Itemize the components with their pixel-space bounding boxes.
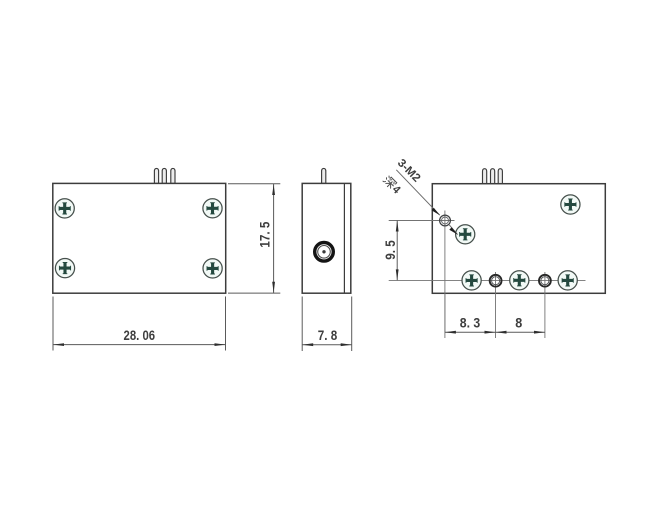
leader line to tapped hole xyxy=(396,170,440,215)
centerline vertical bottom hole 2 xyxy=(544,272,546,338)
dimension 17.5 extension line bottom xyxy=(228,292,280,294)
leader second segment to screw xyxy=(449,225,457,235)
SMA connector inner circle xyxy=(318,246,331,259)
pin P3 (front view) xyxy=(171,168,175,183)
pin P2 (front view) xyxy=(162,168,166,183)
screw back bottom 3 xyxy=(558,271,577,290)
centerline horizontal through top-left hole xyxy=(389,220,455,222)
dimension 17.5 extension line top xyxy=(228,183,280,185)
screw back bottom 2 xyxy=(510,271,529,290)
svg-text:7. 8: 7. 8 xyxy=(318,327,338,343)
svg-text:28. 06: 28. 06 xyxy=(124,327,156,343)
dimension 9.5 arrow top xyxy=(396,221,399,232)
tapped hole bottom 2 xyxy=(539,275,551,287)
screw front bottom-right xyxy=(203,259,222,278)
svg-text:8: 8 xyxy=(515,315,522,331)
dimension 17.5 arrow top xyxy=(272,184,275,195)
pin P1 (front view) xyxy=(154,168,158,183)
extension below top-left hole to dim xyxy=(444,293,446,338)
dimension 8.3 arrow right xyxy=(485,331,496,334)
back view body outline xyxy=(432,184,605,294)
side view inner edge line xyxy=(343,184,345,293)
tapped hole top-left xyxy=(440,215,451,226)
hand-drawn 深 glyph xyxy=(382,175,396,189)
dimension 17.5 line xyxy=(273,184,275,293)
screw back bottom 1 xyxy=(462,271,481,290)
pin P3 (back view) xyxy=(498,169,502,184)
dimension 8.3/8 line xyxy=(445,331,545,333)
leader arrow at hole xyxy=(432,208,440,215)
svg-text:4: 4 xyxy=(390,184,403,197)
dimension 8.3 arrow left xyxy=(445,331,456,334)
leader text 深4 (depth 4) xyxy=(381,175,403,197)
dimension 28.06 extension line left xyxy=(52,297,54,351)
screw front top-right xyxy=(203,199,222,218)
front view body outline xyxy=(53,183,226,293)
dimension 28.06 line xyxy=(53,344,226,346)
svg-text:8. 3: 8. 3 xyxy=(460,315,481,331)
dimension 7.8 extension line right xyxy=(351,297,353,352)
dimension 7.8 line xyxy=(302,344,352,346)
pin (side view) xyxy=(322,168,326,183)
svg-text:9. 5: 9. 5 xyxy=(382,240,398,260)
screw front top-left xyxy=(55,199,74,218)
pin P1 (back view) xyxy=(483,169,487,184)
centerline horizontal bottom hole row xyxy=(389,279,586,281)
dimension 28.06 extension line right xyxy=(225,297,227,351)
svg-text:3-M2: 3-M2 xyxy=(395,157,423,185)
dimension 7.8 arrow right xyxy=(341,343,352,346)
leader arrow at screw xyxy=(449,227,457,234)
screw back top-right xyxy=(561,195,580,214)
tapped hole bottom 1 xyxy=(490,275,502,287)
svg-text:17. 5: 17. 5 xyxy=(257,221,273,247)
dimension 8 arrow right xyxy=(534,331,545,334)
screw back upper-left xyxy=(456,225,475,244)
SMA connector outer ring xyxy=(315,243,334,262)
dimension 28.06 arrow left xyxy=(53,343,64,346)
centerline vertical bottom hole 1 xyxy=(495,272,497,338)
dimension 28.06 arrow right xyxy=(215,343,226,346)
dimension 7.8 extension line left xyxy=(301,297,303,352)
dimension 9.5 line xyxy=(396,221,398,281)
pin P2 (back view) xyxy=(491,169,495,184)
side view body outline xyxy=(302,183,351,293)
dimension 8 arrow left xyxy=(496,331,507,334)
SMA connector center pin xyxy=(322,250,325,253)
dimension 7.8 arrow left xyxy=(302,343,313,346)
screw front bottom-left xyxy=(55,259,74,278)
centerline vertical through top-left hole xyxy=(444,211,446,333)
dimension 17.5 arrow bottom xyxy=(272,282,275,293)
dimension 9.5 arrow bottom xyxy=(396,269,399,280)
